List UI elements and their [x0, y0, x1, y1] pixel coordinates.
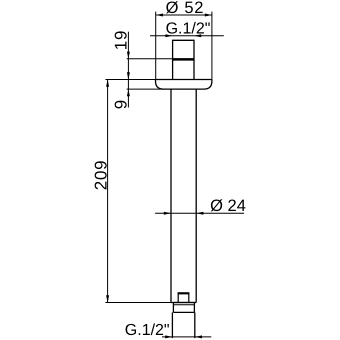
svg-text:Ø 52: Ø 52	[166, 0, 205, 17]
arrow 19 down	[127, 52, 130, 59]
dimension line 19	[127, 32, 129, 80]
arrow 209 up	[106, 80, 109, 87]
extension line 9 bottom	[127, 88, 164, 90]
svg-text:G.1/2": G.1/2"	[166, 20, 211, 37]
inner check-valve box	[178, 293, 189, 302]
nipple thread G1/2 top	[173, 40, 194, 79]
extension line 209 bottom	[105, 302, 171, 304]
svg-text:209: 209	[92, 160, 111, 190]
arrow G.1/2 bottom right	[195, 335, 202, 338]
flange top extension line	[105, 79, 155, 81]
collar nut	[173, 304, 194, 306]
dimension label 209	[92, 160, 111, 190]
tube Ø24	[171, 89, 196, 302]
dimension label Ø24	[210, 197, 246, 215]
arrow Ø52 left	[156, 14, 163, 17]
dimension line G.1/2 bottom	[162, 336, 211, 338]
dimension line 209	[107, 80, 109, 303]
dimension label Ø52	[166, 0, 205, 17]
thread end line (thick)	[173, 58, 194, 61]
arrow 9 top	[127, 72, 130, 79]
dimension label 19	[112, 30, 131, 51]
dimension label 9	[112, 100, 131, 109]
extension line Ø52 right	[211, 12, 213, 80]
inner box thick top	[178, 292, 190, 294]
dimension line G.1/2 top	[150, 35, 224, 37]
arrow Ø24 left	[164, 212, 171, 215]
dimension label G.1/2 top	[166, 20, 211, 37]
arrow Ø24 right	[196, 212, 203, 215]
arrow G.1/2 bottom left	[165, 335, 172, 338]
dimension line Ø52	[156, 14, 212, 16]
arrow G.1/2 top right	[194, 34, 201, 37]
dimension line Ø24	[155, 212, 244, 214]
thread G1/2 bottom	[172, 312, 194, 338]
extension line Ø52 left	[155, 12, 157, 80]
svg-text:Ø 24: Ø 24	[210, 197, 246, 215]
dimension label G.1/2 bottom	[125, 322, 170, 339]
arrow Ø52 right	[205, 14, 212, 17]
arrow 209 down	[106, 295, 109, 302]
svg-text:19: 19	[112, 30, 131, 51]
extension line 19 bottom	[127, 58, 173, 60]
dimension line 9	[127, 79, 129, 107]
arrow 9 bottom	[127, 89, 130, 96]
arrow G.1/2 top left	[165, 34, 172, 37]
ceiling flange	[156, 80, 212, 90]
svg-text:9: 9	[112, 100, 131, 109]
